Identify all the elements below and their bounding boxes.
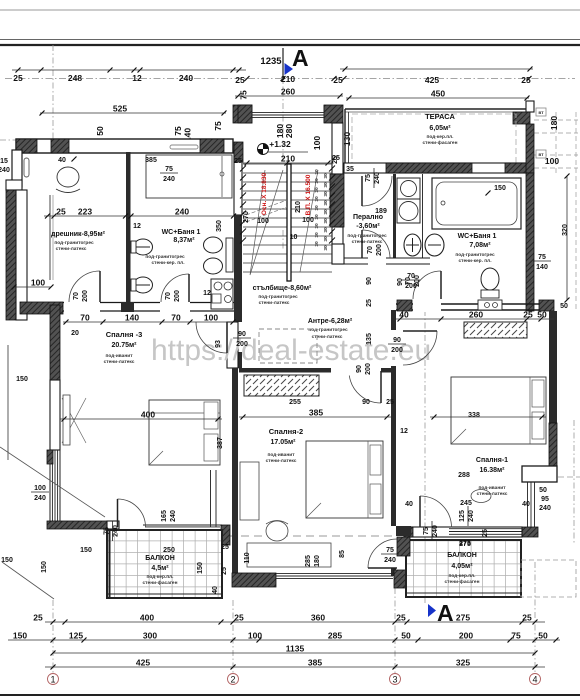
wall: stair right x332-344	[330, 123, 344, 264]
balcony right slab	[406, 540, 521, 597]
svg-text:385: 385	[145, 157, 157, 164]
svg-text:270: 270	[243, 211, 250, 223]
wall: left upper vertical	[12, 150, 22, 187]
right edge dashed construction lines	[534, 112, 578, 310]
svg-text:100: 100	[257, 218, 269, 225]
door bedroom2 top	[349, 371, 381, 403]
svg-text:25: 25	[221, 544, 229, 551]
svg-text:25: 25	[386, 399, 394, 406]
svg-text:30: 30	[323, 227, 329, 233]
svg-text:210: 210	[281, 154, 295, 164]
svg-text:70: 70	[165, 292, 172, 300]
header double line	[0, 40, 580, 46]
svg-text:25: 25	[333, 75, 343, 85]
svg-text:360: 360	[311, 613, 325, 623]
WC2 dims	[397, 224, 569, 310]
dim row corridor y317	[63, 313, 236, 325]
svg-text:30: 30	[314, 187, 320, 193]
axis bubbles	[48, 674, 541, 685]
wall: lower-left block of dressing room	[20, 302, 63, 314]
svg-text:стени-кер. пл.: стени-кер. пл.	[458, 259, 491, 264]
svg-text:35: 35	[346, 166, 354, 173]
svg-text:вт: вт	[538, 153, 544, 158]
svg-text:210: 210	[295, 201, 302, 213]
svg-text:240: 240	[432, 525, 439, 537]
svg-text:250: 250	[163, 547, 175, 554]
svg-text:50: 50	[401, 631, 411, 641]
svg-text:12: 12	[133, 223, 141, 230]
svg-text:под-кер.пл.: под-кер.пл.	[146, 575, 173, 580]
wall: bedroom1/2 party x391-396	[391, 310, 411, 576]
svg-text:под-гранитогрес: под-гранитогрес	[54, 241, 94, 246]
svg-text:7,08м²: 7,08м²	[469, 242, 491, 249]
svg-text:70: 70	[171, 313, 181, 323]
stairs tread ticks	[240, 166, 335, 244]
svg-text:200: 200	[236, 341, 248, 348]
svg-text:50: 50	[537, 310, 547, 320]
horizontal axis dash-dot line	[5, 78, 575, 80]
WC2 toilet	[478, 268, 502, 310]
svg-text:стени-фасаген: стени-фасаген	[423, 139, 458, 146]
svg-text:6,05м²: 6,05м²	[429, 125, 451, 132]
wall: bedroom3 lower-right double line	[211, 470, 231, 545]
svg-text:70: 70	[367, 246, 374, 254]
svg-text:75: 75	[213, 121, 223, 131]
closet partition dressing left	[50, 195, 53, 280]
bottom dim row 1	[33, 613, 545, 625]
svg-text:245: 245	[460, 500, 472, 507]
door bedroom3 balcony	[118, 499, 146, 527]
svg-text:под-гранитогрес: под-гранитогрес	[455, 253, 495, 258]
svg-text:17.05м²: 17.05м²	[270, 439, 296, 446]
svg-text:25: 25	[13, 73, 23, 83]
left side dims	[44, 157, 236, 231]
svg-text:450: 450	[431, 89, 445, 99]
bottom dim row 2	[8, 631, 560, 643]
svg-text:248: 248	[68, 73, 82, 83]
svg-text:240: 240	[34, 495, 46, 502]
svg-text:100: 100	[312, 136, 322, 150]
bottom dim row 4	[45, 658, 545, 670]
svg-text:30: 30	[314, 232, 320, 238]
stool bedroom1	[471, 490, 491, 503]
svg-text:385: 385	[308, 658, 322, 668]
bedroom1 right dims	[405, 487, 551, 547]
bedroom1 dims	[430, 412, 546, 479]
svg-text:90: 90	[397, 278, 404, 286]
svg-text:150: 150	[494, 185, 506, 192]
room label WC1	[145, 229, 200, 266]
top frame line	[0, 9, 580, 11]
svg-text:240: 240	[179, 73, 193, 83]
svg-text:338: 338	[468, 412, 480, 419]
svg-text:240: 240	[374, 172, 381, 184]
room label bedroom3	[104, 330, 143, 365]
stairs small dims	[234, 156, 339, 241]
watermark	[151, 334, 431, 367]
svg-text:2: 2	[230, 675, 235, 685]
svg-text:https://deal-estate.eu: https://deal-estate.eu	[151, 334, 431, 367]
bed bedroom2	[306, 441, 383, 518]
svg-text:Спалня-1: Спалня-1	[476, 457, 508, 464]
svg-text:90: 90	[366, 277, 373, 285]
window cross bedroom3	[62, 395, 86, 445]
svg-text:100: 100	[545, 156, 559, 166]
svg-text:180: 180	[549, 116, 559, 130]
svg-text:95: 95	[541, 496, 549, 503]
bedroom2 dims	[239, 408, 391, 567]
svg-text:стени-кер. пл.: стени-кер. пл.	[151, 261, 184, 266]
wall: bedroom2 bottom y573-579	[232, 570, 416, 588]
twin sinks laundry/WC2	[404, 234, 444, 256]
svg-text:90: 90	[238, 331, 246, 338]
svg-text:325: 325	[456, 658, 470, 668]
svg-text:Перално: Перално	[353, 214, 383, 221]
svg-text:A: A	[292, 45, 309, 71]
svg-text:240: 240	[539, 505, 551, 512]
svg-text:25: 25	[332, 155, 340, 162]
svg-text:30: 30	[323, 218, 329, 224]
svg-text:30: 30	[323, 182, 329, 188]
svg-text:240: 240	[170, 510, 177, 522]
wall: WC2 bottom y296-309	[396, 300, 554, 312]
svg-text:25: 25	[482, 529, 489, 537]
room label bedroom1	[476, 457, 508, 497]
svg-text:50: 50	[560, 303, 568, 310]
svg-text:30: 30	[314, 169, 320, 175]
balcony dims	[1, 541, 471, 594]
bottom frame line	[0, 694, 580, 696]
svg-text:под-иванит: под-иванит	[478, 486, 506, 491]
svg-text:40: 40	[58, 157, 66, 164]
svg-text:стени-латекс: стени-латекс	[104, 360, 135, 365]
bottom dim row 3 1135	[51, 644, 538, 656]
svg-text:25: 25	[221, 567, 228, 575]
svg-text:под-иванит: под-иванит	[267, 453, 295, 458]
WC1 toilets on central wall	[131, 239, 153, 293]
svg-text:140: 140	[125, 313, 139, 323]
svg-text:50: 50	[538, 631, 548, 641]
room label balcony left	[143, 555, 178, 586]
bed bedroom1	[451, 377, 546, 444]
svg-text:400: 400	[141, 410, 155, 420]
right vertical dim line	[565, 174, 570, 303]
stairs red text left	[261, 173, 268, 216]
diagonal leader lines bottom left	[0, 447, 105, 599]
washbasin dressing top	[56, 167, 80, 193]
svg-text:WC+Баня 1: WC+Баня 1	[458, 233, 497, 240]
door bedroom1 top	[388, 331, 437, 365]
room label WC2	[455, 233, 496, 264]
svg-text:25: 25	[235, 75, 245, 85]
525 dim	[40, 104, 227, 116]
svg-text:200: 200	[459, 631, 473, 641]
svg-text:20: 20	[71, 330, 79, 337]
svg-text:200: 200	[365, 363, 372, 375]
svg-text:под-кер.пл.: под-кер.пл.	[448, 574, 475, 579]
wall: hall left x236-239	[234, 352, 242, 368]
room label hall	[308, 318, 353, 340]
svg-text:стени-латекс: стени-латекс	[56, 247, 87, 252]
wall: top of dressing room	[16, 139, 233, 153]
dim 12 party wall	[400, 428, 408, 435]
door terrace	[362, 176, 392, 206]
svg-text:75: 75	[511, 631, 521, 641]
svg-text:30: 30	[314, 223, 320, 229]
wall: bedroom1 right x549-557	[520, 311, 580, 545]
door WC1	[161, 274, 189, 302]
210 dim stairs	[243, 154, 332, 166]
svg-text:150: 150	[16, 376, 28, 383]
svg-text:260: 260	[281, 87, 295, 97]
svg-text:285: 285	[328, 631, 342, 641]
svg-text:189: 189	[375, 208, 387, 215]
svg-text:240: 240	[163, 176, 175, 183]
svg-text:425: 425	[425, 75, 439, 85]
svg-text:75: 75	[365, 174, 372, 182]
shower WC1	[146, 155, 232, 198]
svg-text:12: 12	[132, 73, 142, 83]
svg-text:93: 93	[215, 340, 222, 348]
wall: laundry/WC2 bottom y296-311	[344, 257, 430, 265]
svg-text:1235: 1235	[260, 56, 282, 67]
svg-text:280: 280	[284, 124, 294, 138]
svg-text:150: 150	[41, 561, 48, 573]
svg-text:100: 100	[204, 313, 218, 323]
vertical axis dashed lines	[53, 45, 535, 673]
svg-text:90: 90	[356, 365, 363, 373]
stairs direction lines	[246, 170, 318, 275]
svg-text:100: 100	[31, 278, 45, 288]
svg-text:4: 4	[532, 675, 537, 685]
svg-text:90: 90	[362, 399, 370, 406]
svg-text:40: 40	[522, 501, 530, 508]
left edge tiny labels	[0, 140, 16, 174]
wall: terrace top + left	[345, 109, 530, 173]
svg-text:Спалня-2: Спалня-2	[269, 427, 303, 436]
door bedroom1 balcony	[420, 496, 452, 528]
svg-text:БАЛКОН: БАЛКОН	[145, 555, 175, 562]
stairs red text right	[305, 174, 312, 215]
svg-text:525: 525	[113, 104, 127, 114]
wall: dressing/WC bottom (corridor top) y302-312	[63, 301, 236, 312]
svg-text:75: 75	[538, 254, 546, 261]
svg-text:30: 30	[323, 209, 329, 215]
svg-text:200: 200	[391, 347, 403, 354]
svg-text:30: 30	[314, 205, 320, 211]
svg-text:387: 387	[217, 437, 224, 449]
window 100/240 left	[31, 485, 49, 502]
svg-text:200: 200	[82, 290, 89, 302]
svg-text:240: 240	[175, 207, 189, 217]
svg-text:30: 30	[314, 241, 320, 247]
terrace inner dashed outline	[352, 114, 516, 166]
svg-text:25: 25	[234, 158, 242, 165]
svg-text:12: 12	[203, 290, 211, 297]
svg-text:400: 400	[140, 613, 154, 623]
wall: WC right / stair left x233-243	[233, 105, 252, 322]
svg-text:Спалня -3: Спалня -3	[106, 330, 143, 339]
wall: balcony left pier bottom	[203, 560, 217, 586]
radiator niche left	[24, 158, 29, 177]
WC1 double sink bottom right	[203, 279, 233, 309]
wall: right side of WC2 block x526-534	[526, 101, 534, 311]
svg-text:1135: 1135	[286, 644, 305, 654]
svg-text:под-кер.пл.: под-кер.пл.	[426, 135, 453, 140]
svg-text:4,05м²: 4,05м²	[451, 563, 473, 570]
svg-text:16.38м²: 16.38м²	[479, 467, 505, 474]
svg-text:40: 40	[405, 501, 413, 508]
svg-text:40: 40	[212, 586, 219, 594]
wall: stair top window piers	[238, 105, 343, 123]
dim 100 niche	[12, 278, 54, 290]
svg-text:25: 25	[234, 613, 244, 623]
svg-text:25: 25	[56, 207, 66, 217]
svg-text:под-иванит: под-иванит	[105, 354, 133, 359]
svg-text:100: 100	[34, 485, 46, 492]
small vertical dims near top walls	[95, 90, 559, 150]
svg-text:135: 135	[366, 333, 373, 345]
svg-text:3: 3	[392, 675, 397, 685]
svg-text:+1.32: +1.32	[269, 139, 291, 149]
laundry washer+dryer column	[397, 178, 420, 223]
level mark +1.32	[258, 139, 309, 155]
svg-text:125: 125	[459, 510, 466, 522]
svg-text:70: 70	[405, 277, 412, 285]
row below WC2: 40 260 25 50	[396, 310, 554, 322]
svg-text:30: 30	[323, 191, 329, 197]
hall dims	[215, 273, 420, 406]
svg-text:Антре-6,28м²: Антре-6,28м²	[308, 318, 353, 325]
svg-text:75: 75	[386, 547, 394, 554]
svg-text:WC+Баня 1: WC+Баня 1	[162, 229, 201, 236]
wall: terrace bottom / laundry top y163-173	[344, 163, 530, 173]
svg-text:В.П. X 16.500: В.П. X 16.500	[305, 174, 312, 215]
svg-text:350: 350	[216, 220, 223, 232]
svg-text:285: 285	[305, 555, 312, 567]
balcony left slab	[107, 530, 222, 598]
150 left dim	[8, 345, 28, 460]
door laundry	[362, 230, 390, 258]
wall: bedroom2 left x227-238	[227, 322, 238, 578]
svg-text:275: 275	[459, 540, 471, 547]
svg-text:200: 200	[414, 275, 421, 287]
svg-text:30: 30	[323, 173, 329, 179]
svg-text:под-гранитогрес: под-гранитогрес	[347, 234, 387, 239]
svg-text:75: 75	[239, 90, 249, 100]
svg-text:150: 150	[197, 562, 204, 574]
section marker A top	[260, 45, 308, 78]
svg-text:Осн. X 18.830: Осн. X 18.830	[261, 173, 268, 216]
svg-text:200: 200	[376, 244, 383, 256]
wall: bedroom3 bottom y521-529	[47, 521, 222, 532]
svg-text:стени-фасаген: стени-фасаген	[143, 579, 178, 586]
svg-text:50: 50	[95, 126, 105, 136]
svg-text:20.75м²: 20.75м²	[111, 342, 137, 349]
svg-text:70: 70	[73, 292, 80, 300]
wall: bedroom3 left wall x50-60	[47, 305, 60, 521]
door dressing room	[69, 271, 100, 302]
labels on axis line 25 210 25 / 425 25	[235, 74, 531, 85]
svg-text:240: 240	[0, 167, 10, 174]
balcony right left pier	[397, 537, 410, 556]
laundry area dims	[332, 155, 387, 256]
svg-text:140: 140	[536, 264, 548, 271]
svg-text:30: 30	[323, 245, 329, 251]
svg-text:75: 75	[423, 527, 430, 535]
svg-text:40: 40	[399, 310, 409, 320]
WC1 toilets right pair	[204, 220, 234, 274]
svg-text:70: 70	[80, 313, 90, 323]
svg-text:стени-латекс: стени-латекс	[259, 301, 290, 306]
svg-text:223: 223	[78, 207, 92, 217]
svg-text:125: 125	[69, 631, 83, 641]
svg-text:8,37м²: 8,37м²	[173, 237, 195, 244]
svg-text:стени-латекс: стени-латекс	[266, 459, 297, 464]
dim row top-left 25/248/12/240/25	[12, 68, 246, 84]
wardrobe hall	[244, 375, 319, 406]
door bedroom3 top (from hall)	[196, 322, 227, 353]
svg-text:30: 30	[323, 236, 329, 242]
wall: laundry left x332-344 bottom part	[332, 244, 344, 264]
svg-text:стълбище-8,60м²: стълбище-8,60м²	[253, 284, 312, 292]
svg-text:под-гранитогрес: под-гранитогрес	[308, 328, 348, 333]
svg-text:240: 240	[113, 525, 120, 537]
svg-text:вт: вт	[538, 111, 544, 116]
wall: central partition dressing/WC	[126, 152, 131, 303]
wall: bedroom1 bottom y527-537	[404, 527, 522, 537]
room label balcony right	[445, 552, 480, 585]
room label dressing	[51, 231, 106, 252]
dim 400 bedroom3	[60, 410, 224, 449]
svg-text:10: 10	[290, 234, 298, 241]
door WC2	[413, 271, 441, 299]
svg-text:30: 30	[314, 196, 320, 202]
svg-text:25: 25	[521, 75, 531, 85]
rug hall dashed	[259, 329, 317, 363]
room label bedroom2	[266, 427, 304, 464]
svg-text:240: 240	[468, 510, 475, 522]
wall: bedroom2 top y368-372	[239, 368, 391, 373]
wall: left step horizontal	[6, 180, 22, 190]
stair room label	[253, 284, 312, 306]
svg-text:100: 100	[302, 217, 314, 224]
svg-text:25: 25	[396, 613, 406, 623]
svg-text:30: 30	[323, 200, 329, 206]
svg-text:25: 25	[523, 310, 533, 320]
svg-text:260: 260	[469, 310, 483, 320]
svg-text:75: 75	[104, 527, 111, 535]
svg-text:12: 12	[400, 428, 408, 435]
svg-text:110: 110	[244, 552, 251, 563]
svg-text:4,5м²: 4,5м²	[151, 565, 169, 572]
room label terrace	[423, 112, 458, 146]
svg-text:75: 75	[165, 166, 173, 173]
stairs rise labels 30	[314, 169, 329, 251]
svg-text:стени-латекс: стени-латекс	[477, 492, 508, 497]
svg-text:165: 165	[161, 510, 168, 522]
wardrobe bedroom1	[464, 322, 527, 338]
svg-text:425: 425	[136, 658, 150, 668]
svg-text:288: 288	[458, 472, 470, 479]
room label laundry	[347, 214, 387, 245]
svg-text:50: 50	[539, 487, 547, 494]
svg-text:25: 25	[522, 613, 532, 623]
svg-text:300: 300	[143, 631, 157, 641]
svg-text:85: 85	[339, 550, 346, 558]
svg-text:150: 150	[80, 547, 92, 554]
260 dim stairs window	[235, 87, 343, 99]
